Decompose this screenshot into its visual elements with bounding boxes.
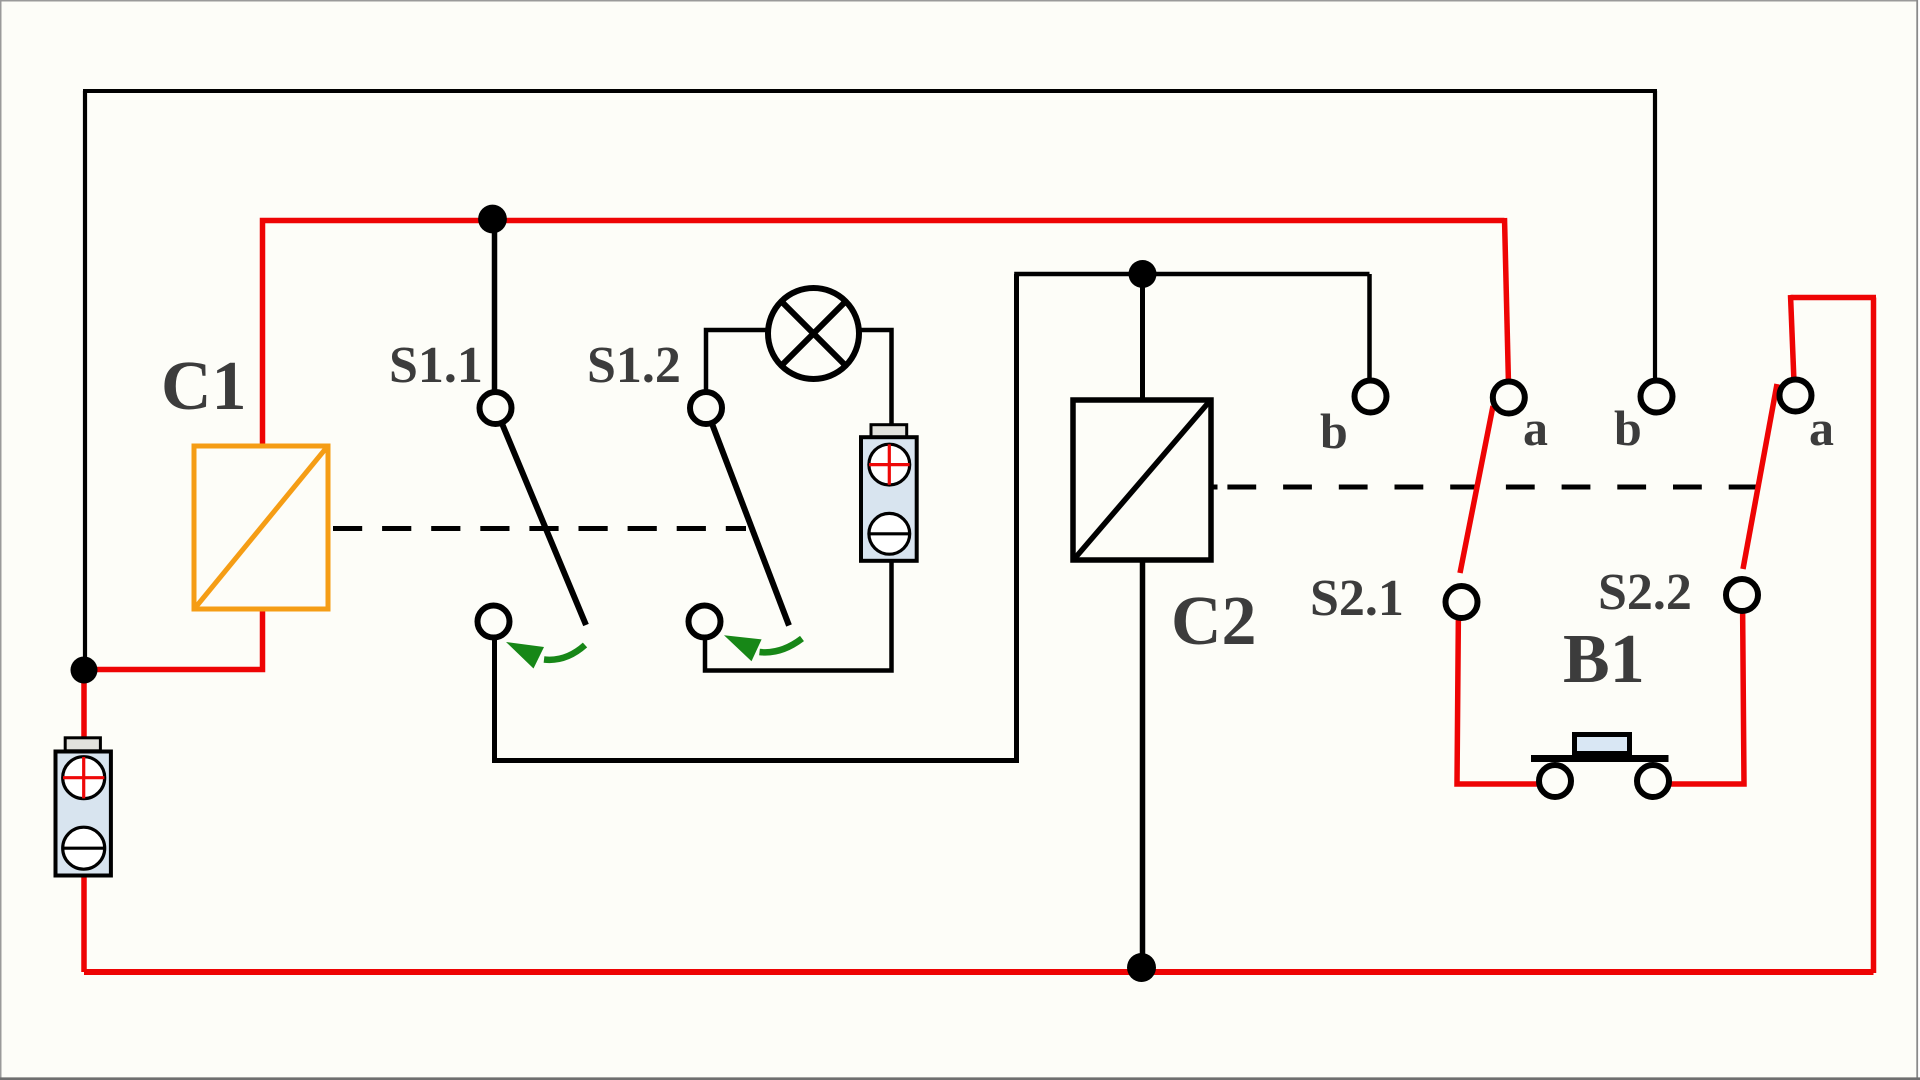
wire: C1 bottom to left junction [88,609,263,670]
S1.1 upper contact [480,392,512,424]
S2.2 upper contact a [1780,380,1812,412]
battery right (plus/minus cells, S1.2 loop) [861,425,917,561]
wire: red slant into S2.1 upper contact [1505,218,1509,384]
junction node on bottom red bus [1127,953,1156,982]
push button B1 [1531,735,1669,759]
wire: S2.1 lower contact down to button B1 left [1457,602,1541,784]
wire: right red riser [1871,298,1877,974]
S2.2 lower contact [1726,579,1758,611]
svg-text:b: b [1320,403,1348,459]
wire: left bus vertical (black) [83,91,87,670]
wire: S1.2 upper contact to lamp [706,330,770,407]
blade of switch S1.1 (open) [496,408,587,625]
svg-text:a: a [1809,400,1834,456]
relay coil C2 (black box) [1073,400,1211,560]
lamp (circle with X) [768,288,859,379]
wire: drop to terminal b of S2.1 [1367,274,1372,384]
contact circles (open terminals) [478,380,1812,798]
svg-text:S2.2: S2.2 [1598,564,1692,621]
S1.2 upper contact [690,392,722,424]
wire: button B1 right to S2.2 lower contact [1667,595,1744,784]
mechanical link dashed: C2 to S2.1/S2.2 blades [1211,485,1218,490]
S1.1 lower contact [478,606,510,638]
green actuation arrow of S1.2 [724,635,802,661]
wire: right drop to terminal b of S2.2 side (black) [1653,91,1657,384]
terminal b (left, on C2 net) [1355,381,1387,413]
wire: right battery bottom to S1.2 lower contact [705,560,892,671]
wire: red slant into S2.2 upper contact [1791,295,1795,382]
svg-text:S1.2: S1.2 [587,337,681,394]
svg-text:C2: C2 [1171,583,1257,660]
green actuation arrow of S1.1 [506,642,585,669]
wire: battery minus down to bottom bus [81,874,87,972]
svg-text:S1.1: S1.1 [389,337,483,394]
wire: junction down to battery plus [81,670,87,740]
svg-text:S2.1: S2.1 [1310,570,1404,627]
wire: top bus horizontal (black) [83,89,1657,93]
wire: C2 coil stem bottom down to red bus [1140,558,1146,966]
relay coil C1 (orange box) [194,446,328,609]
S2.1 lower contact [1446,586,1478,618]
S1.2 lower contact [689,606,721,638]
wire: red bus from C1 top, along top to S2.1 upper contact [263,221,1505,447]
wire: top right red jog [1791,295,1877,301]
battery left (plus/minus cells) [56,738,111,876]
junction node on C2 top net [1129,260,1157,288]
wire: riser up to C2 top net [1014,274,1019,763]
wire: S1.1 lower contact down [492,621,497,761]
blade of switch S2.2 (red, closed) [1743,384,1777,569]
wire: S1.1 stem from red bus junction down to upper contact [492,219,498,400]
svg-text:B1: B1 [1563,621,1645,698]
junction node left (black/red bus) [71,657,98,684]
blade of switch S1.2 (open) [706,408,789,626]
blade of switch S2.1 (red, closed) [1460,406,1493,573]
svg-text:C1: C1 [161,348,247,425]
wire: lamp to right battery [857,330,892,428]
mechanical link dashed: C1 to S1.1/S1.2 blades [333,526,746,531]
button B1 left contact [1539,765,1571,797]
wire: bottom link of S1 loop to C2 net [492,758,1017,763]
terminal b (right, on top bus) [1641,381,1673,413]
svg-text:b: b [1614,400,1642,456]
button B1 right contact [1637,765,1669,797]
wire: C2 top net horizontal [1014,272,1369,277]
wire: bottom red bus [84,969,1874,975]
junction node on red bus at S1.1 stem [478,205,507,234]
S2.1 upper contact a [1493,382,1525,414]
wire: C2 coil stem top [1140,274,1145,402]
svg-text:a: a [1523,400,1548,456]
